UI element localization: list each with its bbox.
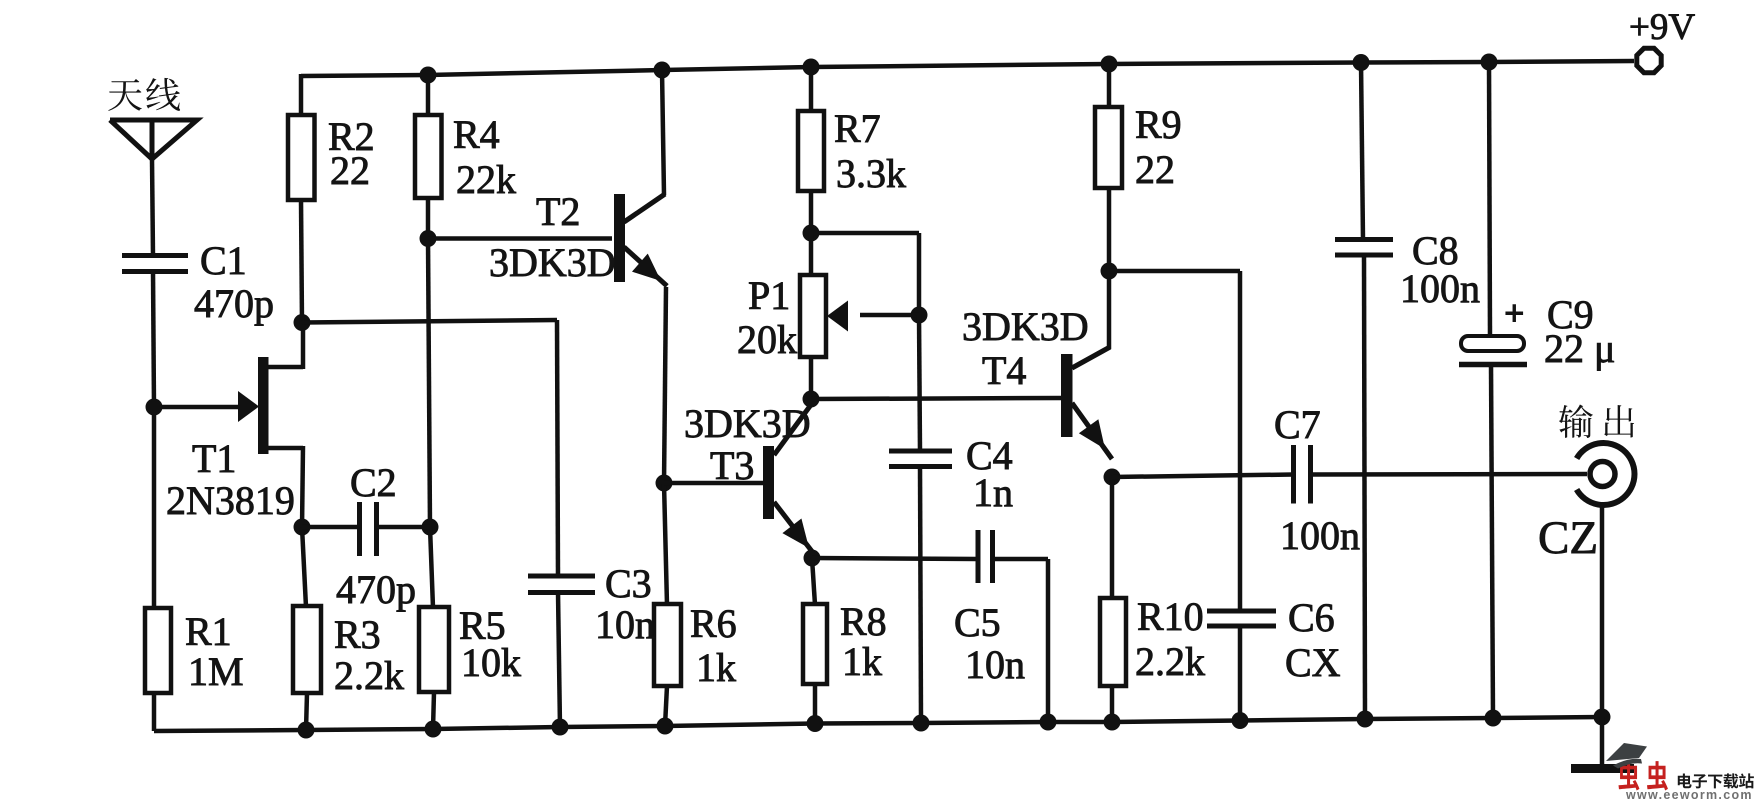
svg-text:C7: C7 xyxy=(1274,402,1321,447)
svg-text:CX: CX xyxy=(1285,640,1341,685)
svg-text:R8: R8 xyxy=(840,599,887,644)
svg-text:T4: T4 xyxy=(982,348,1026,393)
svg-text:+: + xyxy=(1504,293,1525,333)
svg-text:10n: 10n xyxy=(965,642,1025,687)
svg-text:22: 22 xyxy=(1135,147,1175,192)
svg-text:R6: R6 xyxy=(690,601,737,646)
svg-text:T2: T2 xyxy=(536,189,580,234)
svg-text:3.3k: 3.3k xyxy=(836,151,906,196)
svg-text:R10: R10 xyxy=(1137,594,1204,639)
svg-text:1k: 1k xyxy=(696,645,736,690)
svg-text:C2: C2 xyxy=(350,460,397,505)
svg-text:T1: T1 xyxy=(192,436,236,481)
svg-text:22k: 22k xyxy=(456,157,516,202)
svg-text:R4: R4 xyxy=(453,112,500,157)
svg-text:R9: R9 xyxy=(1135,102,1182,147)
svg-text:www.eeworm.com: www.eeworm.com xyxy=(1625,788,1753,801)
svg-text:2N3819: 2N3819 xyxy=(166,478,295,523)
svg-text:22 μ: 22 μ xyxy=(1544,326,1615,371)
svg-text:C1: C1 xyxy=(200,238,247,283)
svg-text:3DK3D: 3DK3D xyxy=(962,304,1089,349)
svg-text:2.2k: 2.2k xyxy=(334,653,404,698)
svg-text:P1: P1 xyxy=(748,273,790,318)
svg-text:1n: 1n xyxy=(973,470,1013,515)
svg-text:10n: 10n xyxy=(595,602,655,647)
svg-text:470p: 470p xyxy=(194,281,274,326)
svg-text:10k: 10k xyxy=(461,640,521,685)
svg-text:R3: R3 xyxy=(334,612,381,657)
svg-text:T3: T3 xyxy=(710,443,754,488)
svg-text:3DK3D: 3DK3D xyxy=(489,240,616,285)
svg-text:+9V: +9V xyxy=(1629,7,1695,48)
svg-text:1k: 1k xyxy=(842,639,882,684)
svg-text:2.2k: 2.2k xyxy=(1135,639,1205,684)
svg-text:R1: R1 xyxy=(185,609,232,654)
svg-text:C6: C6 xyxy=(1288,595,1335,640)
svg-text:CZ: CZ xyxy=(1538,512,1598,564)
svg-text:100n: 100n xyxy=(1400,266,1480,311)
svg-text:C5: C5 xyxy=(954,600,1001,645)
svg-text:R7: R7 xyxy=(834,106,881,151)
svg-text:100n: 100n xyxy=(1280,513,1360,558)
svg-text:470p: 470p xyxy=(336,567,416,612)
svg-text:22: 22 xyxy=(330,148,370,193)
svg-text:1M: 1M xyxy=(188,649,244,694)
svg-text:20k: 20k xyxy=(737,317,797,362)
svg-text:3DK3D: 3DK3D xyxy=(684,401,811,446)
svg-text:C3: C3 xyxy=(605,561,652,606)
